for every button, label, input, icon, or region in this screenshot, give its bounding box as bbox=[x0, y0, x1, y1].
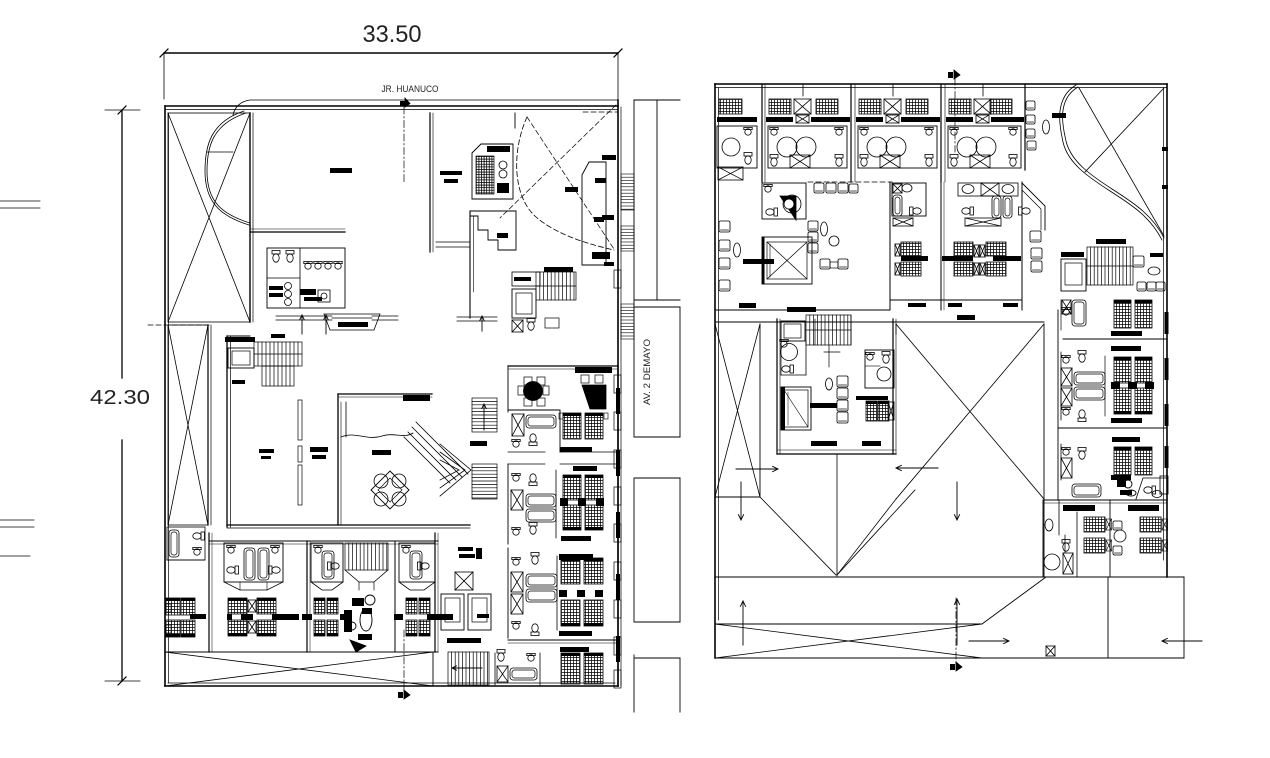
hotel room unit C bbox=[856, 84, 940, 168]
terrace arrow left bbox=[1162, 638, 1202, 643]
terrace cross strip bbox=[715, 624, 1184, 658]
guest bath 3 bbox=[311, 543, 343, 590]
axis marker right plan bbox=[948, 70, 960, 79]
corridor wall horizontal bbox=[436, 242, 470, 247]
room D2 beds bbox=[942, 242, 1021, 276]
guest beds 1 bbox=[166, 598, 206, 637]
rooms east wall bbox=[616, 366, 620, 686]
wall right of mid bay bbox=[208, 325, 211, 525]
hall bar bbox=[1052, 113, 1066, 118]
street block 2 bbox=[635, 307, 680, 437]
left plan outer wall bottom bbox=[165, 683, 618, 686]
right unit2 bathroom bbox=[1061, 351, 1105, 422]
canopy east wing bbox=[457, 316, 497, 331]
terrace diagonal bbox=[982, 577, 1046, 624]
neighbour ticks far left bbox=[0, 201, 40, 556]
lounge chairs left wall bbox=[719, 221, 730, 291]
lobby south wall bbox=[227, 525, 470, 528]
suite1 bathroom bbox=[512, 414, 556, 447]
suite couch column bbox=[808, 221, 839, 253]
terrace arrow up 2 bbox=[954, 599, 959, 645]
penthouse bed bbox=[781, 387, 811, 430]
svg-text:33.50: 33.50 bbox=[363, 21, 422, 48]
text JR. HUANUCO bbox=[382, 84, 439, 95]
penthouse walls bbox=[777, 319, 896, 454]
terrace arrow up 1 bbox=[740, 601, 745, 645]
kitchen block bbox=[472, 144, 513, 199]
street block 4 bbox=[635, 658, 680, 712]
label bar upper room bbox=[330, 168, 352, 173]
guest row partition 3 bbox=[394, 541, 396, 652]
text AV. 2 DEMAYO bbox=[642, 339, 653, 405]
hotel room unit A bbox=[717, 99, 757, 180]
column tick bbox=[514, 113, 516, 128]
meeting table bbox=[518, 377, 549, 406]
room3 bathroom bbox=[508, 548, 557, 638]
suite wall east bbox=[889, 84, 891, 310]
guest beds 2 bbox=[227, 598, 299, 636]
door swing dashed arcs bbox=[500, 105, 617, 250]
right unit2 bar top bbox=[1111, 346, 1141, 351]
bottom bathroom bbox=[495, 650, 540, 686]
svg-text:42.30: 42.30 bbox=[90, 387, 150, 409]
guest row partition 1 bbox=[209, 533, 212, 652]
penthouse unit2 beds bbox=[856, 396, 894, 421]
wall C2/D2 bbox=[941, 182, 944, 310]
chamfered stair room right bbox=[582, 162, 610, 265]
top dimension line bbox=[160, 49, 622, 99]
room C2 beds bbox=[895, 242, 928, 276]
dimension text 33.50 bbox=[363, 21, 422, 48]
wc by unit3 bbox=[1136, 476, 1168, 499]
terrace drain box bbox=[1046, 646, 1055, 656]
stair east of restaurant lower bbox=[470, 441, 497, 499]
room2 beds bbox=[560, 475, 604, 530]
axis marker bottom bbox=[398, 690, 410, 699]
right stair block bbox=[1087, 247, 1133, 285]
right unit2 beds bbox=[1111, 357, 1154, 414]
housekeeping cart right bbox=[1117, 480, 1136, 496]
office label bar bbox=[575, 367, 612, 373]
elevator shaft main bbox=[512, 277, 536, 318]
left plan outer wall left bbox=[165, 106, 169, 686]
penthouse stair bbox=[806, 315, 851, 367]
svg-text:AV. 2 DEMAYO: AV. 2 DEMAYO bbox=[642, 339, 653, 405]
unit B/C wall bbox=[851, 84, 855, 182]
room3 beds bbox=[559, 558, 603, 626]
hall chairs top bbox=[1026, 101, 1036, 150]
suite1 beds bbox=[559, 413, 608, 439]
suite double bed bbox=[762, 237, 812, 284]
right roof cross bay bbox=[896, 324, 1044, 499]
window ladder right wall B bbox=[621, 226, 634, 251]
grand curve wall bbox=[1060, 85, 1164, 240]
suite area bottom bars bbox=[739, 303, 1018, 320]
penthouse bath bbox=[780, 339, 806, 375]
curved ramp wall bbox=[205, 111, 250, 225]
service bath lower left bbox=[167, 527, 205, 560]
stair hall bar top bbox=[1096, 239, 1126, 244]
terrace top wall bbox=[715, 576, 1046, 578]
terrace verticals bbox=[1108, 577, 1184, 658]
terrace top wall right bbox=[1046, 576, 1184, 578]
corridor chamfer bbox=[1022, 183, 1045, 230]
room3 bar top bbox=[559, 554, 593, 560]
penthouse couches bbox=[810, 376, 848, 423]
water feature wavy line bbox=[341, 433, 413, 437]
public WC block bbox=[267, 248, 345, 308]
right plan outer wall left bbox=[715, 84, 719, 658]
entry arrow 2 bbox=[324, 315, 328, 334]
penthouse elevator bbox=[781, 321, 805, 341]
terrace arrow right bbox=[969, 638, 1009, 643]
corridor bar long bbox=[447, 638, 618, 643]
room2 bathroom bbox=[508, 464, 556, 544]
stair hall furniture bbox=[1133, 253, 1165, 291]
east wall ticks bbox=[1162, 147, 1168, 189]
lobby west wall bbox=[227, 336, 250, 527]
suite couch row bbox=[814, 183, 858, 193]
right unit3 bar top bbox=[1112, 437, 1140, 442]
right unit3 beds bbox=[1111, 447, 1152, 480]
entry arrow 1 bbox=[300, 315, 304, 334]
bottom cross-braced strip bbox=[165, 652, 433, 686]
valley diagonal left bbox=[760, 497, 836, 575]
right unit2 bar bottom bbox=[1111, 418, 1142, 423]
unit C/D wall bbox=[941, 84, 945, 182]
penthouse bottom bars bbox=[811, 441, 881, 446]
cross-braced bay mid left bbox=[168, 325, 208, 525]
corridor dashed line bbox=[808, 181, 892, 183]
lounge oval bbox=[734, 243, 741, 257]
service wc by stair bbox=[512, 318, 559, 332]
housekeeping cart cluster bbox=[344, 595, 375, 652]
br table chairs bbox=[1113, 521, 1126, 555]
hotel room unit D bbox=[946, 84, 1024, 168]
guest beds 3 bbox=[302, 598, 348, 636]
stair east of restaurant upper bbox=[472, 398, 497, 432]
lobby elevator bbox=[228, 348, 254, 384]
restaurant walls bbox=[338, 394, 432, 525]
bottom stair block bbox=[448, 652, 489, 685]
suite bathroom bbox=[762, 183, 806, 220]
office desk bbox=[581, 375, 606, 409]
hall oval table bbox=[1043, 120, 1050, 134]
room D2 bath row bbox=[958, 183, 1030, 226]
axis centerline right plan bbox=[954, 78, 956, 152]
br room2 beds bbox=[1140, 517, 1168, 553]
lounge bar bbox=[743, 259, 774, 264]
main stair block bbox=[512, 267, 576, 300]
wall east of unit D bbox=[1024, 84, 1026, 170]
window ladder right wall C bbox=[621, 304, 634, 339]
guest row bottom wall bbox=[165, 651, 438, 653]
left dimension line bbox=[105, 106, 140, 685]
wall right of bay bbox=[250, 113, 253, 322]
roof diagonal 1 bbox=[1079, 88, 1164, 236]
window ladder right wall A bbox=[621, 174, 634, 210]
hall chairs mid bbox=[1030, 231, 1042, 272]
room2 bar bbox=[561, 536, 591, 541]
middle band floor wall bbox=[715, 300, 1044, 322]
right corridor line 1 bbox=[1063, 338, 1167, 340]
cross-braced bay upper left bbox=[168, 113, 250, 322]
left roof cross bay bbox=[715, 324, 760, 497]
penthouse unit2 bath bbox=[865, 350, 894, 388]
svg-text:JR. HUANUCO: JR. HUANUCO bbox=[382, 84, 439, 95]
terrace centerline bbox=[955, 598, 957, 664]
left plan outer wall top bbox=[165, 106, 618, 110]
guest stair bbox=[345, 543, 388, 590]
guest row partition 2 bbox=[307, 541, 310, 652]
east corridor wall bbox=[1021, 182, 1023, 310]
right rooms floor wall bbox=[1044, 500, 1167, 503]
corridor bar bbox=[573, 466, 597, 471]
terrace axis marker bbox=[950, 662, 962, 671]
upper floor elevators bbox=[440, 572, 491, 630]
entrance canopy bbox=[276, 314, 398, 330]
roof arrows bbox=[736, 465, 960, 520]
right plan outer wall right bbox=[1164, 84, 1168, 577]
right unit3 bathroom bbox=[1061, 444, 1101, 497]
valley diagonal right bbox=[837, 490, 915, 575]
reception stair block bbox=[225, 334, 302, 386]
reception desk bars bbox=[259, 447, 328, 459]
east wall window ticks bbox=[1165, 312, 1169, 468]
axis marker top left plan bbox=[400, 98, 410, 107]
room divider walls bbox=[508, 452, 618, 464]
street line JR. HUANUCO bbox=[233, 100, 618, 115]
suite1 bar bbox=[560, 447, 592, 452]
room3 bar bottom bbox=[559, 631, 592, 636]
guest bath 2 bbox=[224, 543, 283, 590]
br bathroom bbox=[1043, 500, 1110, 577]
lobby service bars bbox=[458, 547, 482, 559]
hotel room unit A walls bbox=[762, 84, 765, 182]
stepped servery wall bbox=[470, 211, 516, 250]
right unit1 bath bbox=[1061, 300, 1086, 330]
lobby columns bbox=[298, 400, 302, 505]
br room bars bbox=[1063, 505, 1159, 511]
office suite walls bbox=[508, 366, 618, 452]
restaurant label bar bbox=[403, 395, 430, 401]
br room1 beds bbox=[1084, 517, 1112, 553]
dashed property line bbox=[148, 324, 212, 326]
guest row partition 4 bbox=[435, 533, 438, 652]
ramp diagonal lines bbox=[404, 422, 468, 483]
right corridor line 2 bbox=[1058, 427, 1167, 429]
restaurant small bar bbox=[372, 450, 391, 455]
left plan outer wall right bbox=[618, 100, 621, 686]
guest beds 4 bbox=[394, 598, 453, 636]
terrace chevrons bbox=[440, 444, 471, 496]
right unit1 beds bbox=[1111, 300, 1152, 336]
axis centerline left plan top bbox=[403, 107, 405, 182]
guest bath 4 bbox=[399, 543, 435, 590]
hotel room unit B bbox=[766, 84, 850, 168]
window sill marks upper east wall bbox=[602, 155, 616, 266]
corridor wall west of stair bbox=[470, 211, 474, 318]
dimension text 42.30 bbox=[90, 387, 150, 409]
penthouse mid wall bbox=[815, 319, 857, 454]
right plan outer wall top bbox=[715, 84, 1167, 88]
guest row top wall bbox=[209, 541, 438, 544]
street block 1 bbox=[634, 100, 680, 300]
suite chairs pair bbox=[820, 259, 848, 269]
roof diagonal 2 bbox=[1085, 88, 1164, 172]
street block 3 bbox=[635, 478, 680, 622]
street AV.2 DEMAYO curb bbox=[633, 100, 635, 712]
room C2 bathroom bbox=[892, 183, 926, 226]
right rooms corridor wall 1 bbox=[1044, 310, 1058, 577]
dining table flower bbox=[371, 471, 409, 509]
counter bars bbox=[440, 171, 578, 192]
upper big room walls bbox=[250, 113, 433, 252]
bottom room beds bbox=[560, 647, 603, 684]
valley center line bbox=[836, 454, 838, 576]
axis centerline bottom bbox=[403, 630, 405, 692]
right elevator bbox=[1061, 252, 1086, 291]
column boxes on east wall bbox=[614, 270, 621, 688]
